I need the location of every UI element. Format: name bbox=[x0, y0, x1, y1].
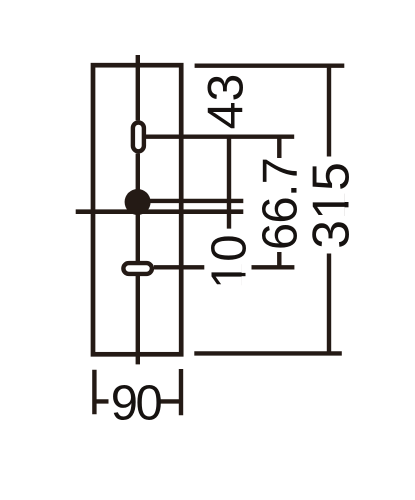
bottom slot reference line bbox=[154, 265, 294, 269]
top extension line bbox=[195, 63, 345, 67]
dimension line 90 bbox=[94, 399, 181, 403]
top slot reference line bbox=[146, 134, 294, 138]
mask: foot serif of "1" in 10 bbox=[242, 276, 247, 286]
svg-text:43: 43 bbox=[198, 74, 254, 130]
dimension line 43/10 vertical bbox=[227, 135, 231, 229]
bottom mounting slot bbox=[123, 263, 151, 274]
svg-text:315: 315 bbox=[303, 162, 361, 249]
circle center reference line bbox=[138, 199, 244, 203]
90 extension tick right bbox=[179, 369, 183, 415]
top mounting slot bbox=[133, 123, 144, 152]
fixture outline (90 x 315 plate) bbox=[93, 65, 181, 354]
90 extension tick left bbox=[92, 370, 96, 415]
lower reference line bbox=[76, 209, 244, 214]
wiring hole (filled circle) bbox=[125, 189, 151, 215]
dimension line 66.7 vertical bbox=[277, 137, 281, 268]
mask: foot serif of "1" in 315 bbox=[345, 193, 350, 202]
centerline (vertical axis) bbox=[136, 55, 140, 364]
bottom extension line bbox=[194, 351, 341, 355]
svg-text:90: 90 bbox=[111, 377, 162, 431]
svg-text:66.7: 66.7 bbox=[253, 158, 307, 250]
svg-text:10: 10 bbox=[203, 235, 257, 290]
dimension line 315 vertical bbox=[327, 66, 331, 354]
